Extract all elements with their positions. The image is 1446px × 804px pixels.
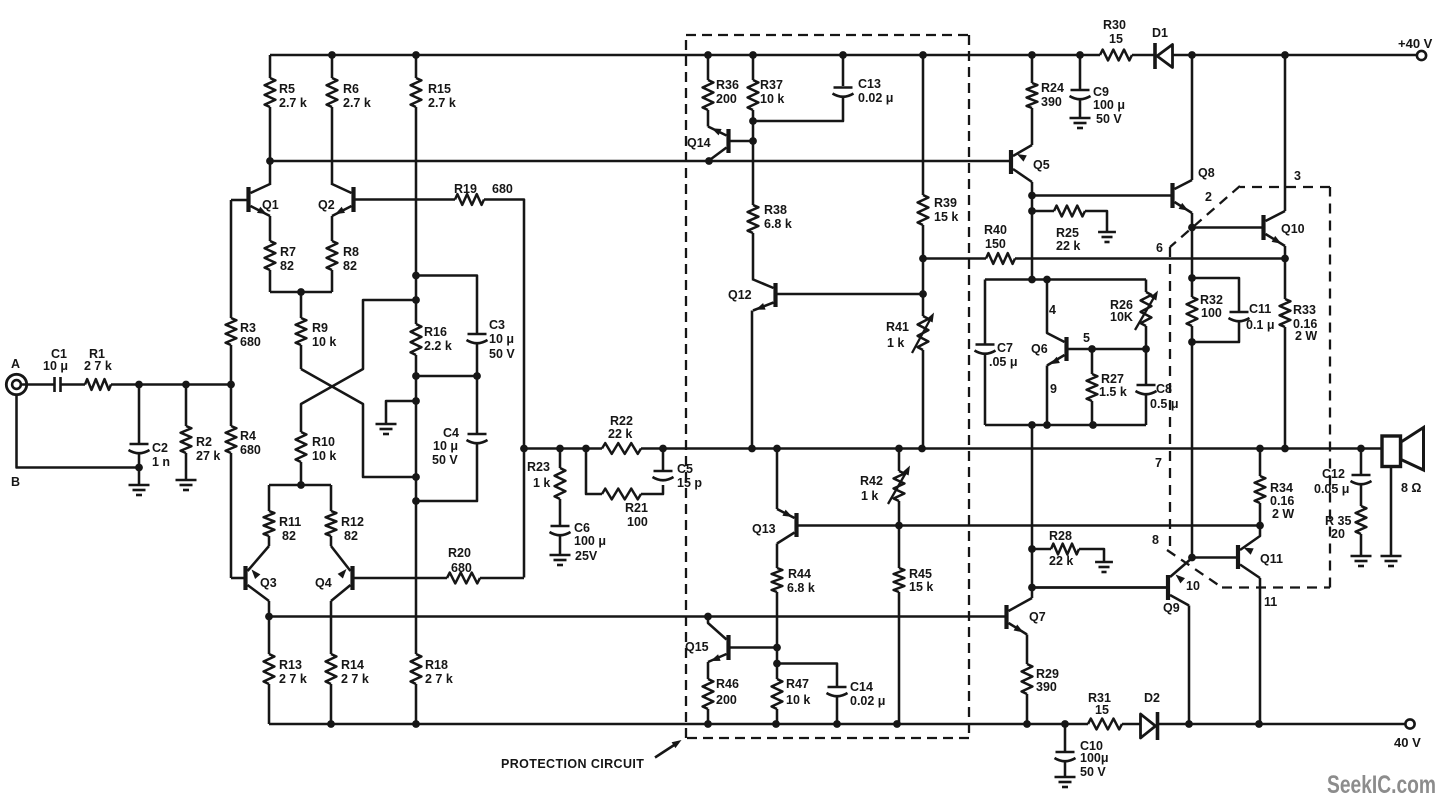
svg-text:R3: R3	[240, 321, 256, 335]
+40V terminal	[1417, 51, 1426, 60]
resistor R36	[707, 55, 710, 80]
svg-text:Q10: Q10	[1281, 222, 1305, 236]
resistor R9	[300, 292, 303, 318]
capacitor C10	[1061, 720, 1069, 728]
svg-text:200: 200	[716, 693, 737, 707]
svg-text:10K: 10K	[1110, 310, 1133, 324]
resistor R33	[1284, 259, 1287, 300]
resistor R22	[602, 443, 641, 454]
svg-text:R29: R29	[1036, 667, 1059, 681]
svg-text:15: 15	[1095, 703, 1109, 717]
ground R35	[1351, 555, 1372, 558]
wire B loop	[17, 395, 140, 468]
svg-text:R32: R32	[1200, 293, 1223, 307]
svg-text:3: 3	[1294, 169, 1301, 183]
svg-text:R18: R18	[425, 658, 448, 672]
svg-text:10 μ: 10 μ	[489, 332, 514, 346]
transistor Q7	[1004, 605, 1008, 629]
svg-text:10 k: 10 k	[312, 449, 336, 463]
resistor R21 branch	[586, 449, 602, 495]
transistor Q10	[1261, 215, 1265, 240]
ground R2	[176, 479, 197, 482]
svg-text:8: 8	[1152, 533, 1159, 547]
node R3/R4 column	[227, 381, 235, 389]
transistor Q9	[1166, 575, 1170, 600]
svg-text:50 V: 50 V	[489, 347, 515, 361]
svg-text:SeekIC.com: SeekIC.com	[1327, 771, 1436, 799]
svg-text:2 7 k: 2 7 k	[341, 672, 369, 686]
svg-text:82: 82	[343, 259, 357, 273]
bottom -40V rail	[269, 723, 1088, 726]
svg-text:R28: R28	[1049, 529, 1072, 543]
svg-text:10 k: 10 k	[312, 335, 336, 349]
svg-text:50 V: 50 V	[1096, 112, 1122, 126]
svg-text:6.8 k: 6.8 k	[787, 581, 815, 595]
node7 output wire	[524, 447, 602, 450]
svg-text:R42: R42	[860, 474, 883, 488]
bias column junctions	[412, 272, 420, 280]
svg-text:1 n: 1 n	[152, 455, 170, 469]
svg-text:+40 V: +40 V	[1398, 36, 1433, 51]
svg-text:R10: R10	[312, 435, 335, 449]
input jack A/B	[6, 374, 26, 394]
svg-text:1.5 k: 1.5 k	[1099, 385, 1127, 399]
resistor R8	[331, 216, 334, 241]
pointer arrow	[655, 743, 678, 758]
svg-text:R30: R30	[1103, 18, 1126, 32]
svg-text:27 k: 27 k	[196, 449, 220, 463]
svg-text:5: 5	[1083, 331, 1090, 345]
resistor R3	[230, 200, 233, 318]
svg-text:82: 82	[344, 529, 358, 543]
svg-text:R8: R8	[343, 245, 359, 259]
resistor R47	[776, 648, 779, 680]
svg-text:4: 4	[1049, 303, 1056, 317]
bias box top wire	[985, 278, 1146, 281]
capacitor C13	[842, 55, 845, 86]
svg-text:.05 μ: .05 μ	[989, 355, 1018, 369]
svg-text:R40: R40	[984, 223, 1007, 237]
svg-text:1 k: 1 k	[533, 476, 550, 490]
svg-text:C2: C2	[152, 441, 168, 455]
svg-text:R9: R9	[312, 321, 328, 335]
transistor Q4	[350, 566, 354, 590]
resistor R2	[185, 385, 188, 427]
transistor Q5	[1009, 150, 1013, 174]
svg-text:0.05 μ: 0.05 μ	[1314, 482, 1349, 496]
svg-text:R13: R13	[279, 658, 302, 672]
svg-text:9: 9	[1050, 382, 1057, 396]
svg-text:2 7 k: 2 7 k	[84, 359, 112, 373]
svg-text:680: 680	[240, 443, 261, 457]
svg-text:R5: R5	[279, 82, 295, 96]
wire Vbe column to Q7	[1031, 425, 1034, 598]
top +40V rail	[270, 54, 1100, 57]
transistor Q8	[1170, 183, 1174, 208]
svg-text:C9: C9	[1093, 85, 1109, 99]
svg-text:15: 15	[1109, 32, 1123, 46]
protection circuit dashed box	[686, 34, 969, 36]
resistor R5	[269, 55, 272, 78]
svg-text:2 W: 2 W	[1272, 507, 1294, 521]
svg-text:22 k: 22 k	[1056, 239, 1080, 253]
resistor R46	[703, 679, 714, 709]
svg-text:C3: C3	[489, 318, 505, 332]
resistor R31	[1088, 719, 1122, 730]
resistor R10	[296, 432, 307, 462]
svg-text:A: A	[11, 357, 20, 371]
resistor R30	[1100, 50, 1132, 61]
svg-text:Q14: Q14	[687, 136, 711, 150]
svg-text:Q8: Q8	[1198, 166, 1215, 180]
resistor R28	[1032, 548, 1051, 551]
svg-text:C4: C4	[443, 426, 459, 440]
svg-text:680: 680	[492, 182, 513, 196]
resistor R27	[1091, 349, 1094, 374]
svg-text:50 V: 50 V	[432, 453, 458, 467]
wire Q5 to Q8 base	[1032, 194, 1171, 197]
resistor R45	[898, 526, 901, 569]
svg-text:R38: R38	[764, 203, 787, 217]
svg-text:390: 390	[1041, 95, 1062, 109]
svg-text:2 7 k: 2 7 k	[279, 672, 307, 686]
svg-text:R36: R36	[716, 78, 739, 92]
wire Q7 collector to Q9 base	[1032, 586, 1166, 589]
svg-text:82: 82	[280, 259, 294, 273]
capacitor C9	[1076, 51, 1084, 59]
capacitor C14	[777, 664, 837, 687]
resistor R23	[559, 449, 562, 469]
capacitor C8	[1145, 349, 1148, 384]
svg-text:Q13: Q13	[752, 522, 776, 536]
speaker ground lead	[1390, 467, 1393, 556]
svg-text:15 k: 15 k	[934, 210, 958, 224]
svg-text:Q2: Q2	[318, 198, 335, 212]
ground C10	[1055, 776, 1076, 779]
wire emitter join	[270, 291, 332, 294]
wire R19 to feedback column	[484, 200, 524, 578]
svg-text:C13: C13	[858, 77, 881, 91]
svg-text:R46: R46	[716, 677, 739, 691]
svg-text:6.8 k: 6.8 k	[764, 217, 792, 231]
svg-text:Q4: Q4	[315, 576, 332, 590]
resistor R12	[330, 485, 333, 511]
ground R28	[1095, 561, 1113, 564]
output module dashed outline	[1170, 186, 1240, 247]
resistor R20	[447, 573, 480, 584]
svg-text:8 Ω: 8 Ω	[1401, 481, 1421, 495]
svg-text:R 35: R 35	[1325, 514, 1351, 528]
svg-text:R15: R15	[428, 82, 451, 96]
resistor R4	[226, 426, 237, 453]
svg-text:10 μ: 10 μ	[43, 359, 68, 373]
svg-text:R33: R33	[1293, 303, 1316, 317]
capacitor C2	[138, 385, 141, 444]
svg-text:R2: R2	[196, 435, 212, 449]
wire C1 to R1	[61, 383, 86, 386]
svg-text:D1: D1	[1152, 26, 1168, 40]
svg-text:R45: R45	[909, 567, 932, 581]
svg-text:R24: R24	[1041, 81, 1064, 95]
resistor R35	[1356, 506, 1367, 534]
resistor R37	[752, 55, 755, 80]
resistor R15	[412, 51, 420, 59]
svg-text:R20: R20	[448, 546, 471, 560]
svg-text:R12: R12	[341, 515, 364, 529]
transistor Q15	[726, 635, 730, 660]
transistor Q6	[1064, 337, 1068, 361]
svg-text:0.1 μ: 0.1 μ	[1246, 318, 1275, 332]
transistor Q14	[726, 129, 730, 153]
input wire to node	[111, 383, 231, 386]
pot R42	[898, 449, 901, 472]
svg-text:Q11: Q11	[1260, 552, 1283, 566]
capacitor C6	[551, 525, 570, 528]
svg-text:0.02 μ: 0.02 μ	[858, 91, 893, 105]
svg-text:100 μ: 100 μ	[1093, 98, 1125, 112]
ground C9	[1070, 117, 1091, 120]
svg-text:10 k: 10 k	[760, 92, 784, 106]
svg-text:B: B	[11, 475, 20, 489]
svg-text:R4: R4	[240, 429, 256, 443]
transistor Q2	[351, 187, 355, 212]
wire jack to C1	[21, 383, 55, 386]
svg-text:0.16: 0.16	[1270, 494, 1294, 508]
svg-text:Q1: Q1	[262, 198, 279, 212]
wire R16 to C3 bottom	[416, 375, 477, 378]
svg-text:2.7 k: 2.7 k	[428, 96, 456, 110]
svg-text:0.5 μ: 0.5 μ	[1150, 397, 1179, 411]
svg-text:R37: R37	[760, 78, 783, 92]
svg-text:15 k: 15 k	[909, 580, 933, 594]
transistor Q11	[1236, 545, 1240, 569]
wire crossover	[301, 300, 416, 432]
resistor R13	[268, 617, 271, 655]
resistor R38	[748, 205, 759, 233]
wire C3 top	[416, 276, 477, 334]
svg-text:R7: R7	[280, 245, 296, 259]
svg-text:C12: C12	[1322, 467, 1345, 481]
svg-text:680: 680	[451, 561, 472, 575]
wire crossover 2	[301, 369, 416, 477]
transistor Q13	[794, 513, 798, 537]
svg-text:C7: C7	[997, 341, 1013, 355]
speaker	[1382, 436, 1401, 467]
svg-text:0.02 μ: 0.02 μ	[850, 694, 885, 708]
transistor Q1	[246, 187, 250, 212]
svg-text:20: 20	[1331, 527, 1345, 541]
svg-text:Q15: Q15	[685, 640, 709, 654]
svg-text:R39: R39	[934, 196, 957, 210]
svg-text:Q5: Q5	[1033, 158, 1050, 172]
diode D1	[1153, 43, 1157, 69]
resistor R11	[268, 485, 271, 511]
svg-text:R25: R25	[1056, 226, 1079, 240]
pot R26	[1145, 280, 1148, 293]
svg-text:100: 100	[1201, 306, 1222, 320]
wire Q10 base	[1192, 226, 1262, 229]
svg-text:200: 200	[716, 92, 737, 106]
svg-text:R22: R22	[610, 414, 633, 428]
svg-text:Q7: Q7	[1029, 610, 1046, 624]
svg-text:Q3: Q3	[260, 576, 277, 590]
svg-text:R47: R47	[786, 677, 809, 691]
svg-text:C11: C11	[1249, 302, 1271, 316]
svg-text:D2: D2	[1144, 691, 1160, 705]
capacitor C1	[53, 377, 56, 392]
resistor R32	[1187, 297, 1198, 326]
capacitor C12	[1360, 449, 1363, 475]
svg-text:R23: R23	[527, 460, 550, 474]
svg-text:C6: C6	[574, 521, 590, 535]
transistor Q3	[243, 566, 247, 590]
svg-text:2.7 k: 2.7 k	[343, 96, 371, 110]
capacitor C7	[984, 280, 987, 344]
svg-text:680: 680	[240, 335, 261, 349]
svg-text:2 W: 2 W	[1295, 329, 1317, 343]
svg-text:R14: R14	[341, 658, 364, 672]
svg-text:2: 2	[1205, 190, 1212, 204]
svg-text:82: 82	[282, 529, 296, 543]
capacitor C11	[1192, 278, 1239, 311]
resistor R18	[411, 654, 422, 684]
node C2 tap	[135, 381, 143, 389]
svg-text:100 μ: 100 μ	[574, 534, 606, 548]
svg-text:150: 150	[985, 237, 1006, 251]
svg-text:R41: R41	[886, 320, 909, 334]
resistor R1	[85, 379, 111, 390]
node8 wire	[899, 524, 1260, 527]
rail dots protection	[704, 51, 712, 59]
svg-text:R21: R21	[625, 501, 648, 515]
bias box bottom wire	[985, 424, 1146, 427]
svg-text:390: 390	[1036, 680, 1057, 694]
wire R11/R12 top	[269, 484, 331, 487]
svg-text:10 μ: 10 μ	[433, 439, 458, 453]
svg-text:R44: R44	[788, 567, 811, 581]
svg-text:C14: C14	[850, 680, 873, 694]
capacitor C3	[468, 333, 487, 336]
svg-text:2.2 k: 2.2 k	[424, 339, 452, 353]
resistor R16	[411, 324, 422, 355]
svg-text:10: 10	[1186, 579, 1200, 593]
ground R25	[1098, 231, 1116, 234]
svg-text:2.7 k: 2.7 k	[279, 96, 307, 110]
resistor R39	[922, 55, 925, 195]
svg-text:25V: 25V	[575, 549, 598, 563]
svg-text:7: 7	[1155, 456, 1162, 470]
pot R41	[918, 316, 929, 350]
svg-text:R6: R6	[343, 82, 359, 96]
svg-text:R16: R16	[424, 325, 447, 339]
resistor R24	[1028, 51, 1036, 59]
svg-text:1 k: 1 k	[861, 489, 878, 503]
svg-text:Q12: Q12	[728, 288, 752, 302]
svg-text:R27: R27	[1101, 372, 1124, 386]
svg-text:R34: R34	[1270, 481, 1293, 495]
svg-text:1 k: 1 k	[887, 336, 904, 350]
resistor R40	[986, 253, 1015, 264]
capacitor C4	[468, 433, 487, 436]
svg-text:50 V: 50 V	[1080, 765, 1106, 779]
svg-text:22 k: 22 k	[1049, 554, 1073, 568]
wire second-stage base line	[269, 615, 1005, 618]
resistor R7	[269, 216, 272, 241]
svg-text:Q6: Q6	[1031, 342, 1048, 356]
node6 wire	[923, 257, 986, 260]
svg-text:Q9: Q9	[1163, 601, 1180, 615]
resistor R34	[1259, 449, 1262, 477]
ground C2	[129, 484, 150, 487]
node R2 tap	[182, 381, 190, 389]
svg-text:10 k: 10 k	[786, 693, 810, 707]
svg-text:2 7 k: 2 7 k	[425, 672, 453, 686]
resistor R25	[1032, 210, 1054, 213]
svg-text:PROTECTION CIRCUIT: PROTECTION CIRCUIT	[501, 757, 644, 771]
diode D2	[1156, 712, 1160, 740]
svg-text:22 k: 22 k	[608, 427, 632, 441]
resistor R6	[328, 51, 336, 59]
svg-text:R11: R11	[279, 515, 301, 529]
wire first-stage collector line	[270, 160, 1009, 163]
svg-text:40 V: 40 V	[1394, 735, 1421, 750]
capacitor C5	[654, 470, 673, 473]
svg-text:100μ: 100μ	[1080, 751, 1109, 765]
transistor Q12	[773, 283, 777, 307]
resistor R29	[1022, 664, 1033, 694]
svg-text:15 p: 15 p	[677, 476, 702, 490]
ground C6	[550, 554, 571, 557]
svg-text:6: 6	[1156, 241, 1163, 255]
resistor R14	[326, 654, 337, 684]
svg-text:11: 11	[1264, 595, 1277, 609]
ground bias tap	[386, 401, 416, 424]
svg-text:100: 100	[627, 515, 648, 529]
-40V terminal	[1405, 719, 1414, 728]
resistor R44	[772, 568, 783, 592]
